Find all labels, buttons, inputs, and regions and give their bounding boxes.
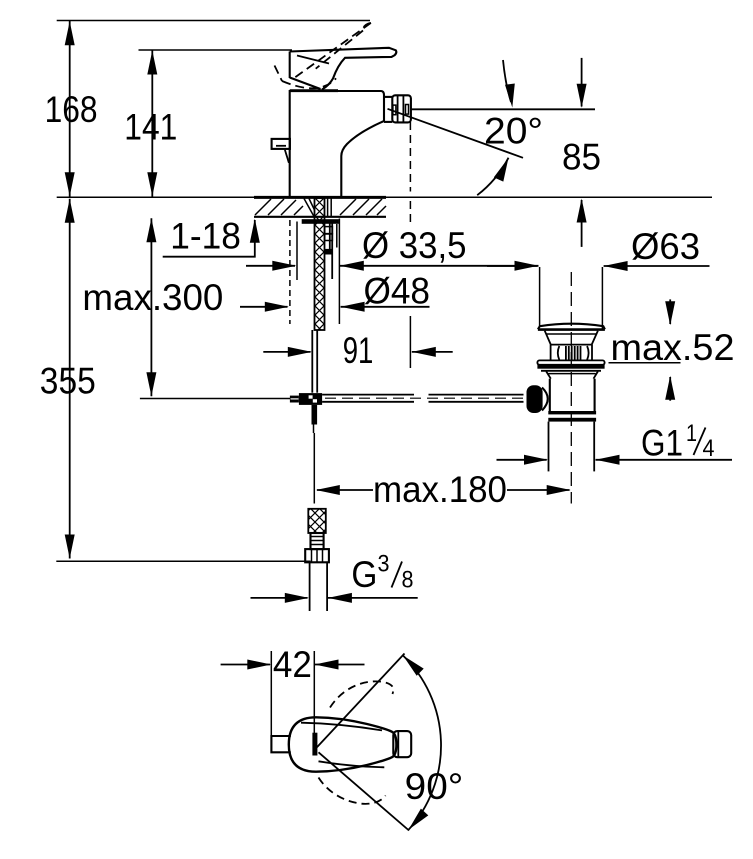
svg-text:20°: 20° xyxy=(484,111,543,152)
aerator xyxy=(384,96,392,98)
dimension 91 xyxy=(263,351,310,353)
faucet body outline xyxy=(290,91,384,197)
horizontal linkage rod xyxy=(322,394,414,396)
lever handle solid xyxy=(290,48,397,90)
pop-up waste coupling rings xyxy=(548,411,596,414)
20 degree stream line xyxy=(388,109,524,158)
countertop top edge xyxy=(254,196,386,199)
dimension max.300 xyxy=(150,218,152,396)
svg-text:Ø63: Ø63 xyxy=(631,226,700,267)
threaded shank xyxy=(315,198,325,330)
hose lines through counter hole xyxy=(327,199,329,217)
pop-up waste tailpipe xyxy=(548,422,550,472)
swing line down xyxy=(319,752,410,830)
dimension G3/8 xyxy=(251,597,308,599)
svg-text:8: 8 xyxy=(402,567,414,594)
svg-text:91: 91 xyxy=(343,330,374,371)
extension line aerator level xyxy=(412,108,596,110)
extension lines Ø63 xyxy=(539,267,541,326)
lever handle raised dashed xyxy=(275,23,371,88)
svg-text:max.52: max.52 xyxy=(611,327,735,368)
countertop bottom edge xyxy=(254,216,386,218)
top view: 42 extension lines xyxy=(270,651,272,741)
top view: aerator end cap xyxy=(393,731,411,757)
svg-text:Ø48: Ø48 xyxy=(364,271,431,312)
svg-text:90°: 90° xyxy=(405,766,464,807)
pop-up rod tee clamp xyxy=(299,393,322,405)
svg-text:3: 3 xyxy=(378,551,390,578)
svg-text:4: 4 xyxy=(703,435,715,462)
hose nut xyxy=(305,549,329,562)
svg-text:1: 1 xyxy=(686,420,697,447)
top view: wall connector xyxy=(271,736,290,752)
countertop hatching xyxy=(255,199,386,215)
svg-text:Ø 33,5: Ø 33,5 xyxy=(362,225,467,266)
pop-up waste ribs xyxy=(558,346,589,360)
dimension 355 xyxy=(69,199,71,559)
supply hose braided xyxy=(308,509,326,533)
svg-text:max.300: max.300 xyxy=(82,277,223,318)
supply pipe G3/8 xyxy=(309,562,311,611)
drain centre line xyxy=(570,272,572,504)
svg-text:G1: G1 xyxy=(641,422,683,463)
dimension Ø48 xyxy=(240,306,288,308)
extension line max handle height xyxy=(57,20,370,22)
swing line up xyxy=(317,654,405,748)
top view: handle body xyxy=(289,717,397,771)
dimension 85 xyxy=(581,58,583,107)
svg-text:355: 355 xyxy=(40,361,96,402)
pop-up waste flange xyxy=(537,360,604,364)
temperature button xyxy=(272,139,290,149)
dimension max.180 xyxy=(317,489,373,491)
dimension 141 xyxy=(151,50,153,197)
pop-up rod vertical xyxy=(311,330,313,393)
dimension max.52 xyxy=(669,299,671,324)
svg-text:168: 168 xyxy=(45,89,98,130)
faucet body top edge xyxy=(290,89,338,92)
extension line handle rest height xyxy=(139,49,293,51)
dimension G1 1/4 xyxy=(497,459,547,461)
dimension Ø33,5 xyxy=(246,265,295,267)
dimension 1-18 leader xyxy=(163,220,255,257)
top view: handle rotated dashed xyxy=(330,681,393,707)
svg-text:85: 85 xyxy=(562,137,601,178)
dimension 42 xyxy=(221,664,270,666)
dimension 168 xyxy=(69,21,71,197)
extension line 355 bottom xyxy=(56,560,310,562)
20 degree leader arrow xyxy=(503,60,511,102)
svg-text:1-18: 1-18 xyxy=(170,216,241,257)
hose fitting xyxy=(311,533,324,549)
pop-up waste body xyxy=(549,379,551,411)
extension line stream at 91 xyxy=(409,316,411,368)
extension line pop-up rod level xyxy=(140,398,290,400)
countertop reference line xyxy=(57,196,712,198)
extension lines below counter xyxy=(289,220,291,324)
linkage knob xyxy=(527,385,543,413)
top view: lever mark xyxy=(312,733,317,756)
stream dashed line xyxy=(409,122,411,192)
pop-up waste neck xyxy=(545,331,551,345)
mounting washer xyxy=(302,219,339,224)
90 degree arc xyxy=(403,656,441,830)
svg-text:max.180: max.180 xyxy=(373,469,507,510)
pop-up waste cap xyxy=(538,324,605,330)
mounting nut details xyxy=(325,227,333,234)
extension line faucet centre xyxy=(313,433,315,504)
svg-text:G: G xyxy=(351,554,377,595)
20 degree arc xyxy=(477,158,508,196)
svg-text:141: 141 xyxy=(124,107,177,148)
svg-text:42: 42 xyxy=(273,644,312,685)
dimension Ø63 xyxy=(487,265,538,267)
